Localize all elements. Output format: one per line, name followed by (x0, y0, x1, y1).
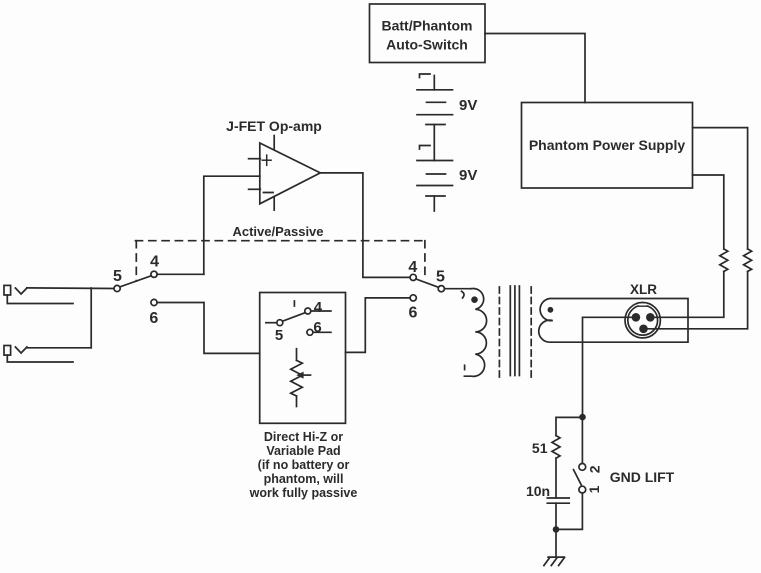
wire jack J2 tip (27, 347, 91, 349)
transformer T1 shield dashed lines (499, 287, 531, 379)
wire phantom supply feed A (693, 128, 748, 249)
svg-text:5: 5 (436, 269, 445, 286)
svg-text:4: 4 (408, 259, 417, 276)
op-amp U1 inverting input stub (249, 188, 261, 190)
svg-text:6: 6 (409, 304, 418, 321)
transformer T1 core (510, 286, 519, 376)
jack J2 sleeve lead (7, 355, 73, 362)
svg-text:GND LIFT: GND LIFT (610, 469, 675, 485)
svg-text:Phantom Power Supply: Phantom Power Supply (529, 137, 686, 153)
svg-text:6: 6 (149, 310, 158, 327)
op-amp U1 noninverting input stub (249, 158, 261, 160)
svg-text:9V: 9V (459, 167, 477, 184)
resistor R2 (720, 249, 728, 272)
dashed gang link box (136, 241, 425, 281)
wire switch S2 throw 6 to pad box right (346, 298, 411, 353)
switch S4 contact 1 (579, 486, 586, 493)
svg-text:9V: 9V (459, 97, 477, 114)
svg-text:5: 5 (113, 268, 122, 285)
switch S1 throw 4 contact (151, 271, 157, 277)
svg-text:5: 5 (275, 327, 283, 344)
resistor R1 (744, 249, 752, 272)
connector XLR outer shell (625, 303, 660, 338)
jack J2 tip contact (15, 347, 27, 353)
ground chassis symbol (544, 557, 565, 565)
wire jack tie junction (90, 288, 92, 348)
wire phantom supply feed B (693, 175, 724, 249)
wire battery interconnect (433, 125, 435, 161)
svg-text:2: 2 (587, 465, 603, 473)
node bottom junction (553, 526, 560, 533)
op-amp U1 plus sign (262, 155, 271, 165)
wire battery BT2 bottom lead (433, 196, 435, 211)
battery BT2 polarity tick (420, 146, 431, 150)
wire battery BT1 top lead (433, 76, 435, 90)
wire switch S1 throw 6 to pad box (157, 303, 260, 354)
connector XLR pin 2 (632, 313, 641, 322)
wire jack J1 tip to switch S1 (27, 287, 114, 290)
svg-text:4: 4 (314, 299, 323, 316)
wire XLR pin 2 to ground-lift node (583, 317, 632, 417)
op-amp U1 minus sign (264, 192, 274, 194)
box U3 Phantom Power Supply (522, 103, 693, 189)
battery BT1 polarity tick (420, 74, 431, 78)
wire switch S2 pole to transformer T1 (444, 288, 471, 290)
wire resistor R3 to capacitor C1 (555, 458, 557, 498)
dashed gang link S3 (293, 301, 295, 309)
switch S1 throw 6 contact (151, 299, 157, 305)
switch S3 pole 5 contact (277, 320, 283, 326)
label pad description (249, 430, 358, 500)
resistor R3 51 (552, 436, 560, 459)
op-amp U1 bottom power pin (273, 197, 275, 210)
node ground-lift top junction (579, 414, 586, 421)
jack J1 sleeve lead (7, 295, 73, 304)
switch S2 throw 6 contact (410, 295, 416, 301)
svg-text:Variable Pad: Variable Pad (266, 444, 340, 458)
connector XLR pin 3 (646, 313, 655, 322)
transformer T1 primary end tick (464, 365, 466, 369)
switch S4 GND LIFT contact 2 (579, 464, 586, 471)
wire pad switch S3 pole lead (266, 322, 277, 324)
transformer T1 primary phase dot (471, 296, 478, 303)
wire op-amp output to switch S2 (320, 173, 410, 278)
battery BT1 9V (417, 90, 477, 125)
switch S2 blade (416, 279, 438, 287)
box pad: Direct Hi-Z / Variable Pad (260, 293, 346, 424)
transformer T1 primary start tick (462, 291, 465, 298)
connector XLR pin 1 (639, 325, 648, 334)
variable resistor VR1 (291, 349, 303, 407)
box U2 Batt/Phantom Auto-Switch (370, 4, 486, 63)
variable resistor VR1 wiper arrow (296, 372, 310, 379)
jack J2 sleeve square (4, 346, 11, 356)
wire resistor R1 to XLR pin 1 (648, 272, 748, 329)
wire op-amp out riser handled above; switch S2 throw 4 contact (410, 274, 416, 280)
jack J1 sleeve square (4, 285, 11, 295)
jack J1 tip contact (15, 288, 27, 294)
transformer T1 secondary phase dot (548, 307, 554, 313)
svg-text:4: 4 (150, 253, 159, 270)
svg-text:phantom, will: phantom, will (264, 472, 344, 486)
wire junction to resistor R3 (556, 417, 583, 435)
switch S1 blade (120, 276, 151, 287)
wire junction to switch S4 (581, 417, 583, 463)
svg-text:10n: 10n (526, 483, 550, 499)
wire resistor R2 to XLR pin 3 (654, 272, 724, 318)
connector XLR inner ring (628, 305, 658, 335)
svg-text:6: 6 (313, 319, 321, 336)
wire switch S3 throw 4 lead (311, 310, 331, 312)
switch S3 blade (283, 313, 305, 322)
svg-text:XLR: XLR (630, 282, 657, 297)
svg-text:Auto-Switch: Auto-Switch (386, 37, 468, 53)
switch S2 pole 5 contact (438, 286, 444, 292)
svg-text:(if no battery or: (if no battery or (258, 458, 350, 472)
switch S3 throw 6 contact (307, 329, 313, 335)
svg-text:J-FET Op-amp: J-FET Op-amp (226, 118, 322, 134)
connector XLR keyway notch (639, 304, 647, 307)
battery BT2 9V (417, 161, 477, 197)
wire bottom junction to ground (555, 529, 557, 556)
switch S4 blade (574, 470, 582, 485)
wire op-amp input from switch S1 (204, 176, 260, 274)
wire switch S3 throw 6 lead (313, 331, 331, 333)
op-amp U1 triangle (260, 143, 321, 204)
wire switch S1 throw 4 to op-amp riser (157, 273, 204, 275)
switch S3 throw 4 contact (305, 308, 311, 314)
svg-text:1: 1 (586, 485, 602, 493)
svg-text:work fully passive: work fully passive (249, 486, 358, 500)
capacitor C1 10n (547, 498, 569, 503)
wire switch S4 to bottom junction (556, 493, 582, 529)
svg-text:51: 51 (532, 440, 548, 456)
switch S1 pole 5 contact (114, 285, 120, 291)
svg-text:Direct Hi-Z or: Direct Hi-Z or (264, 430, 343, 444)
wire auto-switch to phantom supply (485, 34, 585, 103)
transformer T1 secondary winding and XLR body outline (539, 299, 688, 343)
transformer T1 primary winding (464, 288, 486, 376)
svg-text:Batt/Phantom: Batt/Phantom (382, 18, 473, 34)
wire capacitor C1 to bottom junction (555, 503, 557, 529)
op-amp U1 top power pin (273, 136, 275, 150)
svg-text:Active/Passive: Active/Passive (232, 224, 323, 239)
